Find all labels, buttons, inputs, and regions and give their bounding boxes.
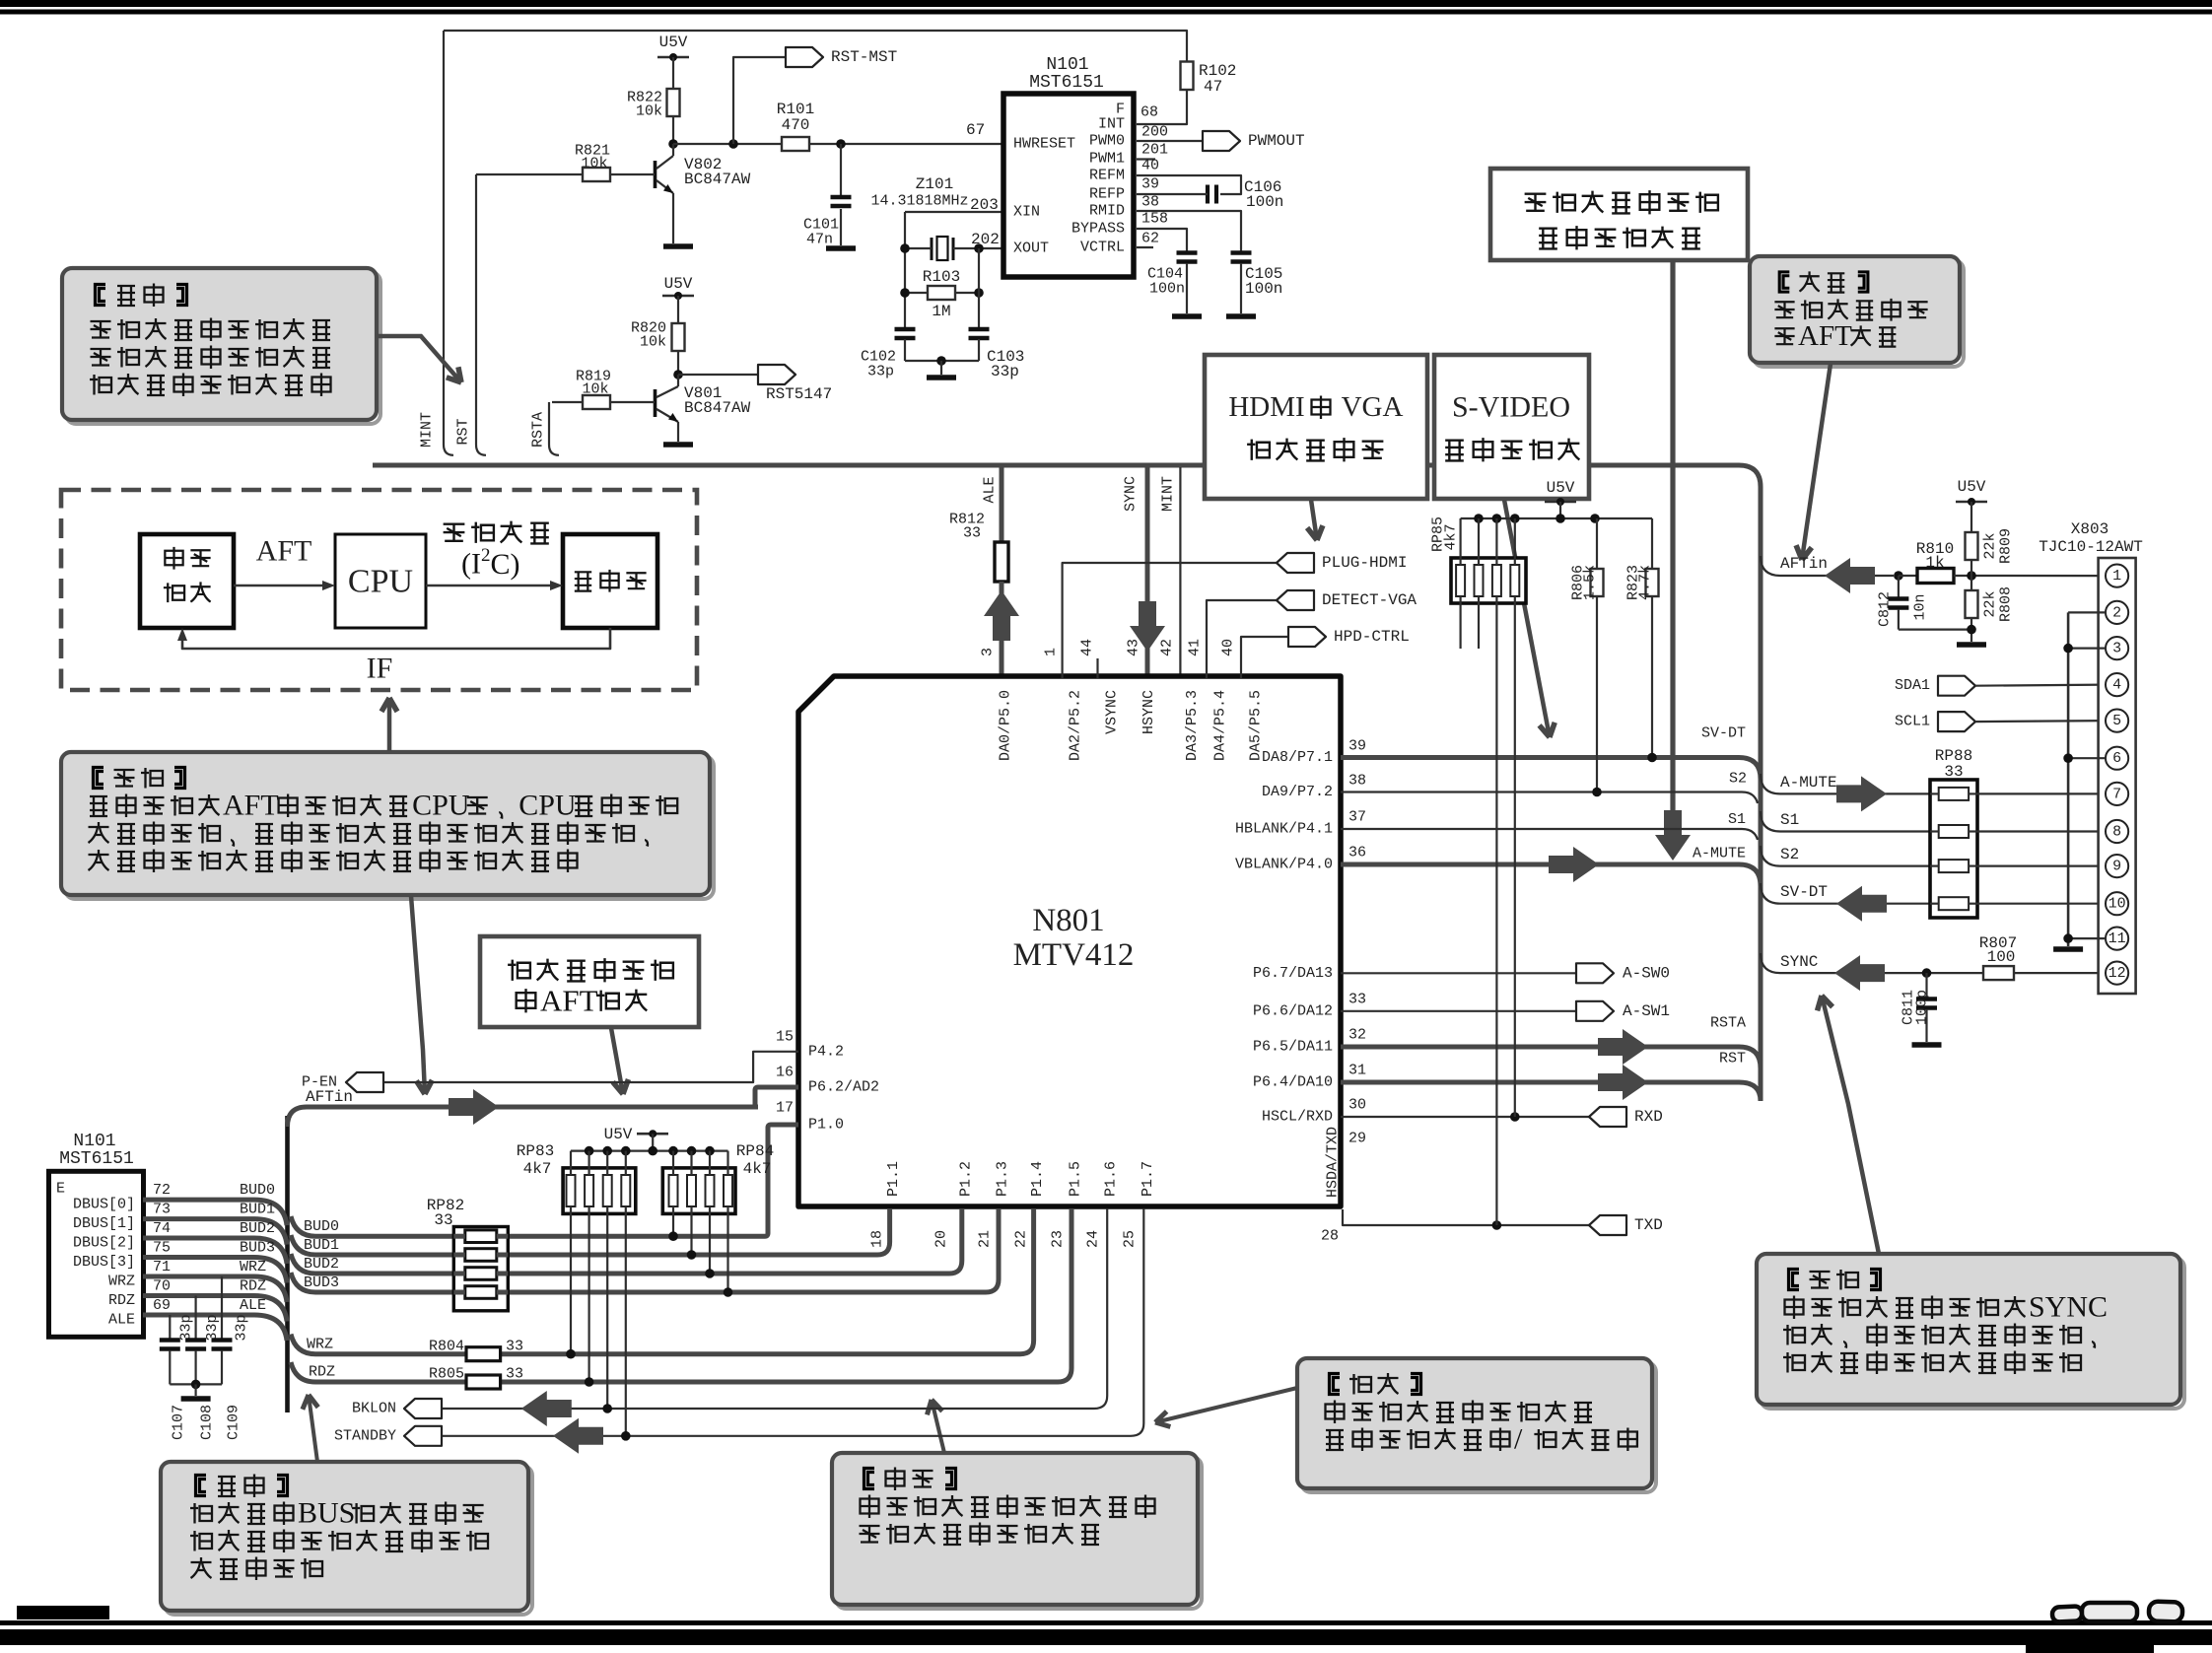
wire A-SW1 from P6.6 <box>1341 1010 1576 1012</box>
connector pin 5 <box>2106 710 2128 732</box>
wire caps to ground <box>905 360 979 362</box>
bus BUD3 row to P1.3 <box>291 1208 999 1292</box>
svg-text:32: 32 <box>1348 1027 1366 1044</box>
arrow on A-MUTE line <box>1836 776 1887 811</box>
svg-text:S1: S1 <box>1728 811 1746 828</box>
arrow aft-box down to AFTin line <box>1802 364 1831 560</box>
resistor pack RP82 33 <box>453 1227 508 1311</box>
svg-text:VBLANK/P4.0: VBLANK/P4.0 <box>1235 857 1333 873</box>
svg-text:9: 9 <box>2112 859 2121 875</box>
svg-text:12: 12 <box>2108 965 2126 982</box>
cable doodle bottom right <box>2052 1601 2183 1621</box>
wire S1 line to RP88 <box>1761 811 1930 832</box>
resistor pack RP85 4k7 <box>1451 558 1526 603</box>
svg-text:VSYNC: VSYNC <box>1104 690 1121 734</box>
svg-text:DETECT-VGA: DETECT-VGA <box>1322 591 1417 609</box>
label 调谐信号 I2C <box>444 524 465 541</box>
bus ALE drop to R812 <box>1000 467 1004 542</box>
svg-text:100p: 100p <box>1914 990 1931 1025</box>
svg-text:203: 203 <box>970 196 999 214</box>
wire S1 from pin 37 <box>1341 829 1758 840</box>
flag RST5147 <box>758 365 795 384</box>
svg-text:P1.2: P1.2 <box>957 1161 974 1197</box>
wire collector node to flag RST5147 <box>678 374 758 376</box>
wire MINT vertical <box>444 31 453 455</box>
transistor V802 BC847AW <box>654 161 657 188</box>
wire DA5 pin40 to HPD-CTRL <box>1241 637 1288 678</box>
annotation box 说明 AFT to CPU <box>65 756 714 899</box>
annotation box S-VIDEO 接口检测端 <box>1434 355 1589 499</box>
capacitor C812 <box>1898 576 1900 597</box>
svg-text:44: 44 <box>1079 639 1096 656</box>
svg-text:31: 31 <box>1348 1063 1366 1079</box>
svg-text:BUD3: BUD3 <box>240 1240 275 1257</box>
annotation box 并行BUS总线 <box>165 1466 532 1615</box>
svg-text:70: 70 <box>153 1278 171 1295</box>
svg-text:SV-DT: SV-DT <box>1701 725 1746 742</box>
RP85 legs bottom: two dangling, TXD, RXD <box>1459 603 1461 649</box>
flag HPD-CTRL <box>1288 627 1326 647</box>
svg-text:WRZ: WRZ <box>307 1337 333 1353</box>
svg-text:N101: N101 <box>1046 55 1088 75</box>
wire base V801 to R819 and RSTA line <box>610 401 655 403</box>
svg-text:DBUS[3]: DBUS[3] <box>73 1254 135 1271</box>
svg-text:18: 18 <box>869 1230 886 1248</box>
svg-text:MINT: MINT <box>1160 476 1177 512</box>
wire caps common to ground <box>170 1383 222 1385</box>
svg-text:BUD1: BUD1 <box>240 1202 275 1218</box>
top border bar <box>0 0 2212 7</box>
svg-text:R103: R103 <box>923 268 960 286</box>
wire R101 to HWRESET pin 67 <box>809 143 1003 145</box>
svg-text:4k7: 4k7 <box>743 1160 772 1178</box>
wire BKLON to P1.6 <box>442 1208 1107 1409</box>
svg-text:29: 29 <box>1348 1131 1366 1147</box>
wire U5V to R822 <box>672 57 674 89</box>
svg-text:X803: X803 <box>2071 520 2108 538</box>
svg-text:158: 158 <box>1141 211 1168 228</box>
svg-text:37: 37 <box>1348 809 1366 826</box>
svg-text:3: 3 <box>980 648 997 656</box>
svg-text:33: 33 <box>506 1366 523 1383</box>
resistor pack RP88 33 <box>1930 780 1977 918</box>
wire DA4 pin41 to DETECT-VGA <box>1207 600 1277 678</box>
svg-text:14.31818MHz: 14.31818MHz <box>870 193 968 210</box>
resistor R805 33 bold <box>466 1375 501 1389</box>
svg-text:TJC10-12AWT: TJC10-12AWT <box>2039 538 2143 556</box>
svg-text:DBUS[2]: DBUS[2] <box>73 1235 135 1252</box>
svg-text:REFM: REFM <box>1089 168 1125 184</box>
svg-text:1k: 1k <box>1925 554 1944 572</box>
wire STANDBY to P1.7 <box>442 1208 1143 1436</box>
connector pin 8 <box>2106 820 2128 843</box>
pin 201 PWM1 stub <box>1137 158 1155 160</box>
wire SDA1 to pin 4 <box>1975 685 2106 686</box>
svg-text:6: 6 <box>2112 750 2121 767</box>
svg-text:RXD: RXD <box>1634 1108 1663 1126</box>
svg-text:PWM1: PWM1 <box>1089 151 1125 168</box>
RP83 legs top <box>570 1151 572 1168</box>
annotation box 中频电路中分离出的SYNC信号 <box>1761 1258 2184 1409</box>
svg-text:HDMI: HDMI <box>1228 391 1304 423</box>
wire RST vertical <box>476 174 486 455</box>
ground under V801 <box>663 442 693 448</box>
pin 40 REFM wire <box>1137 175 1241 194</box>
node collector V802 <box>668 139 678 149</box>
svg-text:(I2C): (I2C) <box>461 545 519 581</box>
bus RDZ pin 70 from N101 to trunk <box>143 1296 287 1322</box>
svg-text:71: 71 <box>153 1259 171 1275</box>
svg-text:P1.5: P1.5 <box>1068 1161 1084 1197</box>
svg-text:69: 69 <box>153 1297 171 1314</box>
pin 44 VSYNC stub <box>1096 658 1098 678</box>
svg-text:33p: 33p <box>234 1314 250 1341</box>
arrow from box2 down to AFTin bus <box>411 896 425 1094</box>
svg-text:DA8/P7.1: DA8/P7.1 <box>1262 749 1333 766</box>
resistor R103 <box>928 286 955 300</box>
svg-text:ALE: ALE <box>982 476 999 503</box>
svg-text:1.5k: 1.5k <box>1582 565 1599 600</box>
svg-text:P1.3: P1.3 <box>995 1161 1011 1197</box>
svg-text:36: 36 <box>1348 845 1366 861</box>
svg-text:42: 42 <box>1159 639 1176 656</box>
bus SV-DT from pin 39 <box>1341 758 1761 780</box>
chip N101 MST6151 top <box>1003 94 1134 277</box>
svg-text:DA3/P5.3: DA3/P5.3 <box>1184 690 1201 761</box>
svg-text:RP84: RP84 <box>736 1142 774 1160</box>
svg-text:PWMOUT: PWMOUT <box>1248 132 1305 150</box>
capacitor C103 <box>969 327 990 332</box>
svg-text:100: 100 <box>1987 948 2016 966</box>
connector pin 1 <box>2106 565 2128 587</box>
wires RP88 to pins 7-10 <box>1977 792 2106 794</box>
connector pin 6 <box>2106 747 2128 770</box>
svg-text:A-SW1: A-SW1 <box>1623 1002 1670 1020</box>
bus BUD0 pin 72 from N101 to trunk <box>143 1200 287 1225</box>
svg-text:22k: 22k <box>1982 590 1999 617</box>
svg-text:RSTA: RSTA <box>1710 1015 1746 1032</box>
svg-text:73: 73 <box>153 1202 171 1218</box>
rail U5V RP83 RP84 <box>571 1149 728 1151</box>
resistor R820 <box>677 296 679 323</box>
capacitor C104 <box>1177 250 1198 255</box>
wire segments inside RP84 <box>672 1168 674 1175</box>
wire MINT drop to pin 42 <box>1179 467 1181 678</box>
svg-text:XOUT: XOUT <box>1013 241 1049 257</box>
capacitor C109 on WRZ <box>221 1276 223 1339</box>
arrow on SYNC line <box>1834 955 1885 991</box>
wire SYNC line <box>1761 953 1983 973</box>
svg-text:RMID: RMID <box>1089 203 1125 220</box>
resistor pack RP83 4k7 <box>563 1168 636 1214</box>
resistor R822 <box>667 89 680 116</box>
svg-text:BUD0: BUD0 <box>240 1182 275 1199</box>
svg-text:22: 22 <box>1013 1230 1030 1248</box>
svg-text:15: 15 <box>776 1029 794 1046</box>
wire segments inside RP85 <box>1459 558 1461 565</box>
svg-text:PWM0: PWM0 <box>1089 133 1125 150</box>
resistor R102 <box>1181 62 1194 91</box>
svg-text:U5V: U5V <box>1958 478 1986 496</box>
svg-text:/: / <box>1514 1423 1523 1456</box>
wire R809 to AFTin line <box>1970 560 1972 576</box>
node C812 top <box>1894 571 1903 581</box>
wire segments inside RP83 <box>570 1168 572 1175</box>
svg-text:REFP: REFP <box>1089 186 1125 203</box>
bus BUD2 row to P1.2 <box>291 1208 962 1274</box>
svg-text:HBLANK/P4.1: HBLANK/P4.1 <box>1235 821 1333 838</box>
svg-text:38: 38 <box>1348 773 1366 790</box>
svg-text:N801: N801 <box>1032 903 1104 938</box>
svg-text:PLUG-HDMI: PLUG-HDMI <box>1322 554 1407 572</box>
svg-text:39: 39 <box>1141 176 1159 193</box>
resistor R807 100 <box>1983 966 2014 980</box>
svg-text:33p: 33p <box>867 364 894 380</box>
svg-text:3: 3 <box>2112 641 2121 657</box>
capacitor C102 <box>895 327 916 332</box>
connector pin 9 <box>2106 855 2128 877</box>
svg-text:HWRESET: HWRESET <box>1013 136 1075 153</box>
svg-text:IF: IF <box>367 653 393 685</box>
dashed box IF block <box>61 490 697 690</box>
svg-text:33: 33 <box>963 525 981 542</box>
wire P-EN from flag to P4.2 <box>383 1052 798 1082</box>
svg-text:39: 39 <box>1348 738 1366 755</box>
svg-text:U5V: U5V <box>1547 479 1575 497</box>
svg-text:47n: 47n <box>806 232 833 248</box>
wire AFTin from bus to connector pin 1 <box>1761 556 1894 576</box>
bus AFTin from trunk <box>288 1107 759 1127</box>
arrow on AFTin bus <box>449 1089 499 1125</box>
ground under C104 <box>1172 313 1202 319</box>
flag P-EN <box>346 1072 383 1092</box>
svg-text:33: 33 <box>434 1211 452 1229</box>
crystal Z101 <box>931 238 933 260</box>
ground under crystal caps <box>927 375 956 380</box>
svg-text:201: 201 <box>1141 142 1168 159</box>
capacitor C101 <box>840 144 842 195</box>
bus ALE pin 69 from N101 to trunk <box>143 1315 287 1341</box>
pin 200 PWM0 wire to PWMOUT <box>1137 140 1203 142</box>
svg-text:CPU: CPU <box>348 564 413 600</box>
arrow on RSTA bus <box>1598 1029 1648 1065</box>
svg-text:SYNC: SYNC <box>1780 953 1818 971</box>
block 中频电路 <box>140 534 234 628</box>
svg-text:RDZ: RDZ <box>240 1278 266 1295</box>
resistor R821 <box>583 168 610 181</box>
svg-text:100n: 100n <box>1246 193 1283 211</box>
svg-text:1: 1 <box>1043 648 1060 656</box>
svg-text:BUD2: BUD2 <box>304 1256 339 1273</box>
bottom border bar <box>17 1606 109 1619</box>
bus BUD2 pin 74 from N101 to trunk <box>143 1238 287 1264</box>
svg-text:33p: 33p <box>178 1314 195 1341</box>
flag TXD <box>1589 1215 1626 1235</box>
svg-text:RST: RST <box>455 418 472 445</box>
svg-text:RST: RST <box>1719 1051 1746 1068</box>
resistor pack RP84 4k7 <box>662 1168 735 1214</box>
resistor R806 <box>1591 569 1604 596</box>
connector pin 3 <box>2106 637 2128 659</box>
ground under R808 <box>1957 642 1986 648</box>
ground under C101 <box>826 245 856 251</box>
wire node to RST-MST branch and R101 <box>673 143 782 145</box>
svg-text:62: 62 <box>1141 231 1159 247</box>
flag STANDBY <box>404 1426 442 1446</box>
svg-text:P6.4/DA10: P6.4/DA10 <box>1253 1074 1333 1091</box>
svg-text:68: 68 <box>1141 104 1158 121</box>
svg-text:SDA1: SDA1 <box>1895 677 1930 694</box>
svg-text:2: 2 <box>2112 604 2121 621</box>
RP84 legs down to BUD0-3 <box>672 1213 674 1236</box>
svg-text:CPU: CPU <box>518 790 577 822</box>
arrow hdmi-box down to PLUG-HDMI <box>1311 500 1317 540</box>
svg-text:A-SW0: A-SW0 <box>1623 964 1670 982</box>
svg-text:BUD1: BUD1 <box>304 1237 339 1254</box>
bus WRZ pin 71 from N101 to trunk <box>143 1276 287 1302</box>
svg-text:R808: R808 <box>1998 586 2015 622</box>
arrow from box1 to RST wire <box>377 336 461 382</box>
arrow from box3 down to AFTin bus <box>611 1028 623 1094</box>
arrow on SV-DT line <box>1836 886 1887 922</box>
svg-text:10k: 10k <box>636 103 662 120</box>
svg-text:RST5147: RST5147 <box>766 385 832 403</box>
svg-text:MST6151: MST6151 <box>59 1149 134 1169</box>
svg-text:INT: INT <box>1098 116 1125 133</box>
svg-text:10k: 10k <box>582 381 608 398</box>
svg-text:DA4/P5.4: DA4/P5.4 <box>1212 690 1229 761</box>
bus BUD1 row to P1.1 <box>291 1208 890 1255</box>
wire DA2 pin1 to PLUG-HDMI <box>1063 563 1277 678</box>
connector X803 TJC10-12AWT <box>2099 558 2136 994</box>
RP85 legs top <box>1459 518 1461 558</box>
arrow svideo-box down to SV-DT <box>1504 500 1550 737</box>
wire SV-DT line to RP88 <box>1761 883 1930 904</box>
wire top horizontal from MINT to R102 <box>444 31 1187 62</box>
bus A-MUTE from pin 36 <box>1341 864 1761 886</box>
wire R808 to ground <box>1970 618 1972 642</box>
bus RSTA from P6.5 <box>1341 1047 1761 1068</box>
capacitor C811 <box>1922 968 1932 978</box>
svg-text:1: 1 <box>2112 568 2121 585</box>
svg-text:VCTRL: VCTRL <box>1080 240 1125 256</box>
svg-text:75: 75 <box>153 1240 171 1257</box>
svg-text:P6.7/DA13: P6.7/DA13 <box>1253 965 1333 982</box>
svg-text:100n: 100n <box>1245 280 1282 298</box>
svg-text:SYNC: SYNC <box>2029 1291 2108 1324</box>
svg-text:67: 67 <box>966 121 985 139</box>
capacitor C108 on RDZ <box>195 1296 197 1340</box>
svg-text:HSYNC: HSYNC <box>1141 690 1157 734</box>
arrow on BKLON wire <box>521 1391 572 1426</box>
svg-text:4: 4 <box>2112 677 2121 694</box>
chip N801 MTV412 <box>798 676 1341 1206</box>
connector pin 4 <box>2106 673 2128 696</box>
resistor R809 22k <box>1966 532 1978 560</box>
svg-text:1M: 1M <box>932 303 950 320</box>
flag DETECT-VGA <box>1277 590 1314 610</box>
flag A-SW0 <box>1576 963 1614 983</box>
wire segments inside RP82 <box>453 1234 465 1239</box>
flag SCL1 <box>1938 712 1975 731</box>
capacitor C106 <box>1206 185 1210 204</box>
resistor R812 <box>995 542 1008 582</box>
svg-text:DA0/P5.0: DA0/P5.0 <box>998 690 1014 761</box>
annotation box 背光灯启动信号 <box>836 1457 1202 1609</box>
svg-text:R805: R805 <box>429 1366 464 1383</box>
flag RST-MST <box>786 47 823 67</box>
svg-text:BKLON: BKLON <box>352 1401 396 1417</box>
capacitor C105 <box>1231 250 1252 255</box>
rail U5V for RP85 R806 R823 <box>1461 517 1652 519</box>
svg-text:RDZ: RDZ <box>108 1292 135 1309</box>
svg-text:MTV412: MTV412 <box>1013 937 1135 973</box>
arrow 中频电路 to CPU <box>234 585 325 587</box>
svg-text:P4.2: P4.2 <box>808 1043 844 1060</box>
svg-text:4k7: 4k7 <box>1443 523 1460 550</box>
svg-text:BUS: BUS <box>298 1497 355 1530</box>
resistor R804 33 bold <box>466 1347 501 1361</box>
svg-text:74: 74 <box>153 1220 171 1237</box>
svg-text:DA9/P7.2: DA9/P7.2 <box>1262 784 1333 800</box>
bus WRZ row to P1.4 <box>291 1208 1034 1354</box>
svg-text:C812: C812 <box>1877 591 1894 627</box>
svg-text:DA2/P5.2: DA2/P5.2 <box>1068 690 1084 761</box>
wire RXD from HSCL <box>1341 1116 1589 1118</box>
svg-text:22k: 22k <box>1982 532 1999 559</box>
flag BKLON <box>404 1399 442 1418</box>
svg-text:28: 28 <box>1321 1228 1339 1245</box>
arrow on RST bus <box>1598 1065 1648 1100</box>
capacitor C107 on ALE <box>169 1315 171 1339</box>
arrow on STANDBY wire <box>553 1418 603 1454</box>
svg-text:30: 30 <box>1348 1097 1366 1114</box>
svg-text:BUD3: BUD3 <box>304 1274 339 1291</box>
ground rail for pins 2 3 6 11 <box>2068 611 2106 613</box>
svg-text:7: 7 <box>2112 786 2121 802</box>
pin 68 INT wire <box>1137 90 1187 124</box>
wire R822 to collector node <box>672 116 674 144</box>
svg-text:33p: 33p <box>204 1314 221 1341</box>
crystal circuit: wire XIN pin 203 <box>905 211 1003 213</box>
connector pin 10 <box>2106 892 2128 915</box>
svg-text:HPD-CTRL: HPD-CTRL <box>1334 628 1410 646</box>
svg-text:U5V: U5V <box>664 275 693 293</box>
wire TXD from HSDA pin 28 <box>1343 1209 1589 1225</box>
svg-text:SYNC: SYNC <box>1123 476 1140 512</box>
svg-text:P1.6: P1.6 <box>1103 1161 1120 1197</box>
svg-text:BC847AW: BC847AW <box>684 399 751 417</box>
svg-text:DBUS[1]: DBUS[1] <box>73 1215 135 1232</box>
svg-text:A-MUTE: A-MUTE <box>1780 774 1837 792</box>
svg-text:RP83: RP83 <box>517 1142 554 1160</box>
arrow sync-box to SYNC line <box>1822 996 1879 1254</box>
svg-text:S-VIDEO: S-VIDEO <box>1452 391 1570 424</box>
wire RST-MST branch <box>733 57 786 144</box>
annotation box 来自中频电路的AFT信号 right <box>1754 260 1964 367</box>
flag PLUG-HDMI <box>1277 553 1314 573</box>
svg-text:AFT: AFT <box>223 790 279 822</box>
flag A-SW1 <box>1576 1001 1614 1021</box>
flag SDA1 <box>1938 676 1975 696</box>
svg-text:AFT: AFT <box>1798 320 1852 352</box>
arrow standby-box to P1.7 wire <box>1155 1388 1297 1422</box>
svg-text:E: E <box>56 1181 65 1198</box>
arrow from box2 up to IF box <box>387 698 392 751</box>
svg-text:HSCL/RXD: HSCL/RXD <box>1262 1109 1333 1126</box>
svg-text:5: 5 <box>2112 713 2121 729</box>
wire IF feedback <box>182 628 610 649</box>
